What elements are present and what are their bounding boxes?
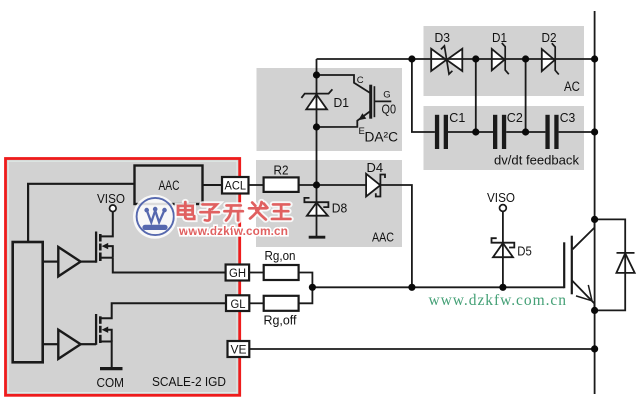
junction R2 / D8 / DA2C node	[313, 181, 320, 188]
resistor Rg,off	[264, 296, 299, 311]
svg-text:R2: R2	[274, 163, 289, 178]
wire dropper D3-D1 node to cap row	[475, 59, 477, 132]
white triangle of zener D2	[542, 49, 555, 71]
wire Q0 gate lead	[375, 100, 391, 102]
capacitor C3 plates	[545, 115, 558, 149]
ground bar below D8	[309, 236, 326, 239]
wire top-left dropper to C1	[412, 59, 435, 132]
svg-text:D8: D8	[332, 201, 348, 216]
white triangle of zener D5	[493, 243, 513, 257]
wire driver to bottom amp	[43, 343, 59, 345]
svg-text:www.dzkfw.com.cn: www.dzkfw.com.cn	[178, 224, 288, 238]
svg-text:D5: D5	[517, 244, 532, 259]
resistor R2	[264, 177, 299, 192]
MOSFET Q-bot channel segments	[99, 316, 102, 343]
zener D8 cathode bar	[304, 198, 328, 207]
TVS D3 triangles outline	[431, 49, 446, 71]
resistor Rg,on	[264, 265, 299, 280]
wire gate net horizontal	[312, 286, 564, 288]
wire GL to Rg,off	[249, 302, 263, 304]
white triangle of diode D4	[366, 174, 380, 197]
svg-text:D2: D2	[542, 30, 557, 45]
junction D3-D1 node	[472, 55, 479, 62]
svg-text:DA²C: DA²C	[365, 130, 399, 145]
terminal box ACL	[222, 177, 249, 194]
ground bar COM	[100, 367, 123, 370]
junction D4 branch to gate net	[408, 284, 415, 291]
junction D5 branch to gate net	[499, 284, 506, 291]
zener D2 cathode bar	[552, 43, 559, 74]
transistor Q0 body bar	[369, 85, 372, 119]
SCALE-2 IGD gate driver block outline	[6, 159, 240, 396]
wire bottom amp to MOSFET gate	[81, 343, 97, 345]
MOSFET Q-top channel segments	[99, 234, 102, 261]
zener D5 triangle outline	[493, 243, 513, 257]
MOSFET Q-bot body tap	[107, 330, 112, 342]
wire cap row C1-C2	[448, 131, 493, 133]
AAC box inside driver	[135, 166, 203, 205]
junction VE node	[591, 345, 598, 352]
MOSFET Q-top body arrow	[102, 243, 109, 249]
TVS D3 center bar	[441, 46, 453, 74]
junction C1-C2 node	[472, 128, 479, 135]
junction Q0 collector / D1 cathode node	[313, 71, 320, 78]
svg-text:VISO: VISO	[97, 191, 125, 206]
terminal box GL	[226, 295, 249, 311]
diode D4 cathode bar	[376, 175, 385, 197]
wire cap row C2-C3	[506, 131, 545, 133]
terminal box VE	[228, 341, 250, 357]
white triangle of freewheel diode	[616, 253, 634, 273]
junction IGBT collector node	[591, 216, 598, 223]
terminal box GH	[226, 265, 250, 281]
wire R2 to D4	[299, 184, 367, 186]
svg-text:ACL: ACL	[225, 179, 247, 193]
wire ACL to R2	[249, 184, 264, 186]
junction top wire to C1 branch	[408, 55, 415, 62]
wire AAC to ACL	[203, 184, 223, 186]
white triangle of zener D8	[307, 203, 328, 216]
wire freewheel diode top branch	[595, 219, 626, 253]
junction AC chain to collector rail	[591, 55, 598, 62]
capacitor C2 plates	[493, 115, 506, 149]
buffer amplifier bottom	[58, 330, 80, 359]
wire D4 to dropper	[380, 185, 412, 287]
MOSFET Q-top drain tap	[100, 211, 113, 236]
svg-text:AC: AC	[564, 79, 580, 94]
svg-text:Q0: Q0	[382, 103, 397, 117]
svg-text:C2: C2	[507, 110, 523, 125]
wire Rg,on to gate node	[299, 273, 313, 288]
junction C2-C3 node	[522, 128, 529, 135]
shaded region AAC block	[256, 160, 402, 247]
junction IGBT emitter node	[591, 307, 598, 314]
svg-text:Rg,on: Rg,on	[265, 249, 296, 263]
diode D4 triangle outline	[366, 174, 380, 197]
shaded region AC block	[424, 26, 585, 96]
MOSFET Q-top source tap	[100, 257, 113, 259]
wire top amp to MOSFET gate	[81, 261, 97, 263]
IGBT collector lead	[573, 221, 595, 249]
wire DA2C emitter down to R2 node	[316, 127, 318, 185]
svg-text:D4: D4	[367, 160, 384, 175]
watermark W logo	[133, 195, 177, 239]
zener D1 (DA2C) cathode bar	[301, 89, 332, 98]
svg-text:D1: D1	[334, 95, 350, 110]
MOSFET Q-top body tap	[107, 246, 113, 258]
shaded region DA2C block	[257, 68, 403, 151]
svg-text:D1: D1	[492, 30, 507, 45]
MOSFET Q-top gate bar	[95, 232, 97, 263]
white triangle of zener D1 (DA2C)	[306, 95, 327, 110]
svg-text:COM: COM	[97, 375, 125, 390]
freewheel diode triangle outline	[616, 253, 634, 273]
wire dropper D1-D2 node to cap row	[525, 59, 527, 132]
watermark chinese characters	[178, 202, 290, 221]
wire GL to MOSFET drain	[100, 303, 226, 318]
svg-text:C3: C3	[560, 110, 576, 125]
wire top collector net	[317, 58, 595, 60]
white triangle of zener D1 (AC)	[492, 49, 505, 70]
transistor Q0 gate bar	[373, 86, 375, 117]
svg-text:AAC: AAC	[372, 230, 394, 245]
zener D8 triangle outline	[307, 203, 328, 216]
wire D8 branch	[316, 185, 318, 237]
svg-text:GH: GH	[229, 266, 246, 280]
wire Q0 emitter lead	[317, 112, 370, 128]
svg-text:AAC: AAC	[159, 178, 180, 193]
shaded region dv/dt feedback block	[424, 106, 585, 170]
wire driver to top amp	[43, 261, 59, 263]
zener D5 cathode bar	[492, 238, 515, 247]
wire D1/Q0 left vertical	[316, 75, 318, 127]
MOSFET Q-bot source tap and COM wire	[100, 342, 111, 368]
buffer amplifier top	[58, 247, 80, 276]
svg-text:www.dzkfw.com.cn: www.dzkfw.com.cn	[429, 292, 567, 309]
junction cap row to collector rail	[591, 128, 598, 135]
svg-text:VE: VE	[231, 343, 247, 357]
MOSFET Q-bot gate bar	[95, 314, 97, 345]
zener D1 (AC) cathode bar	[502, 43, 509, 74]
wire Rg,off to gate node	[299, 287, 313, 303]
svg-text:GL: GL	[231, 297, 246, 311]
junction Rg,on/Rg,off merge node	[309, 284, 316, 291]
junction D1-D2 node	[522, 55, 529, 62]
wire VISO right branch through D5	[502, 212, 504, 288]
IGBT gate bar	[563, 242, 565, 288]
freewheel diode cathode bar	[617, 252, 635, 254]
svg-text:VISO: VISO	[487, 190, 515, 205]
svg-text:Rg,off: Rg,off	[264, 313, 298, 327]
svg-text:D3: D3	[435, 30, 451, 45]
wire DA2C top vertical	[316, 59, 318, 75]
wire VE net	[249, 348, 594, 350]
wire driver top feedback	[28, 184, 134, 242]
MOSFET Q-bot body arrow	[102, 327, 109, 333]
capacitor C1 plates	[435, 115, 448, 149]
wire source to GH	[113, 258, 226, 273]
svg-text:C1: C1	[449, 110, 465, 125]
wire cap row C3 to rail	[559, 131, 595, 133]
driver block rectangle	[13, 242, 43, 362]
IGBT emitter arrow	[576, 285, 592, 301]
IGBT body bar	[571, 236, 573, 295]
transistor Q0 emitter arrow	[358, 113, 366, 120]
svg-text:C: C	[357, 75, 364, 86]
zener D2 triangle outline	[542, 49, 555, 71]
wire right collector rail	[594, 11, 596, 394]
terminal circle VISO right	[500, 205, 507, 212]
junction Q0 emitter / D1 anode node	[313, 123, 320, 130]
svg-text:G: G	[383, 90, 390, 101]
zener D1 (AC) triangle outline	[492, 49, 505, 70]
wire Q0 collector lead	[317, 75, 370, 93]
svg-text:dv/dt feedback: dv/dt feedback	[494, 153, 579, 168]
terminal circle VISO left	[110, 205, 117, 212]
wire freewheel diode bottom branch	[595, 253, 626, 310]
svg-text:SCALE-2 IGD: SCALE-2 IGD	[152, 374, 226, 389]
IGBT emitter lead	[572, 280, 595, 308]
wire GH to Rg,on	[249, 272, 264, 274]
zener D1 (DA2C) triangle outline	[306, 95, 327, 110]
white triangles of TVS D3	[431, 49, 446, 71]
